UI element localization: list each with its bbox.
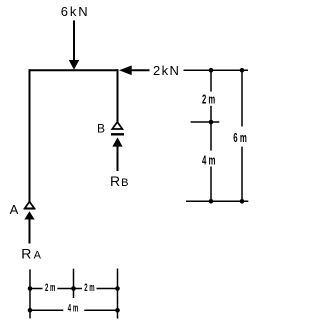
svg-text:4 m: 4 m (202, 154, 216, 168)
support A triangle (pin) (25, 202, 35, 209)
wire: dimension connector top right (184, 69, 249, 71)
dim line: bottom first row segment 3 (97, 288, 118, 290)
support A base line (24, 208, 36, 210)
dim line: segment below 2m label (210, 106, 212, 151)
svg-text:2 m: 2 m (84, 282, 95, 294)
dim line: segment below 4m label (210, 167, 212, 200)
beam: top horizontal member (29, 69, 119, 71)
force 2kN arrowhead (119, 66, 132, 76)
dim line: bottom second row segment 1 (30, 309, 63, 311)
node: dot at top of 6m dim line (240, 68, 245, 73)
force 6kN arrow shaft (73, 20, 75, 61)
force 6kN arrowhead (69, 60, 79, 70)
tick: bottom left extension (x=30) (29, 269, 31, 318)
force 2kN arrow shaft (131, 69, 150, 71)
node: dot bottom row2 left (28, 308, 33, 313)
node: dot bottom row1 middle (71, 286, 76, 291)
wire: dimension connector bottom right (186, 200, 248, 202)
dim line: bottom first row segment 2 (57, 288, 82, 290)
dim line: right 6m vertical lower (241, 147, 243, 200)
tick: bottom right extension (x=117.5) (117, 269, 119, 319)
reaction RB arrow shaft (117, 146, 119, 171)
svg-text:B: B (97, 122, 105, 136)
svg-text:6kN: 6kN (61, 4, 90, 19)
svg-text:2 m: 2 m (45, 282, 56, 294)
reaction RA arrow shaft (29, 219, 31, 244)
reaction RA arrowhead (24, 211, 34, 219)
dim line: bottom first row segment 1 (30, 288, 43, 290)
column: left vertical member (29, 69, 31, 201)
node: dot at B level tick (209, 120, 214, 125)
dim line: right 6m vertical upper (x=242) (241, 72, 243, 126)
node: dot bottom of 6m dim line (240, 199, 245, 204)
svg-text:2kN: 2kN (153, 63, 180, 78)
support B ground bar (111, 133, 124, 135)
node: dot bottom row2 right (115, 308, 120, 313)
node: dot at top of 2m/4m dim line (209, 68, 214, 73)
node: dot bottom row1 left (28, 286, 33, 291)
reaction RB arrowhead (112, 137, 122, 146)
column: right vertical member (117, 69, 119, 122)
dim line: right 2m/4m vertical (x=211) (210, 72, 212, 91)
dim line: bottom second row segment 2 (84, 309, 117, 311)
tick: support B level (191, 121, 220, 123)
node: dot bottom row1 right (115, 286, 120, 291)
support B triangle (roller) (112, 122, 122, 129)
node: dot bottom of 2m/4m dim line (209, 199, 214, 204)
svg-text:A: A (10, 202, 19, 217)
svg-text:4 m: 4 m (68, 303, 79, 315)
svg-text:6 m: 6 m (233, 131, 247, 145)
tick: bottom middle extension (x=73.5) (73, 269, 75, 298)
svg-text:2 m: 2 m (202, 92, 215, 106)
